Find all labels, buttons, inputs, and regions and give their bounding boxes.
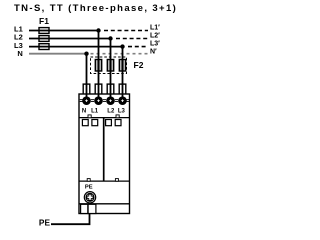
- PE screw: [84, 192, 95, 203]
- wire L2 solid: [29, 38, 111, 40]
- PE tab left: [81, 204, 88, 213]
- wire N solid gray: [29, 53, 87, 55]
- screw L2: [106, 96, 115, 105]
- junction N: [84, 52, 88, 56]
- terminal tab L1: [95, 84, 102, 94]
- notch right module bottom: [115, 179, 118, 182]
- wire L3 solid: [29, 46, 123, 48]
- fuse F2 pole L1: [95, 60, 101, 72]
- wire L3' dashed: [128, 46, 148, 48]
- svg-text:L2: L2: [107, 109, 115, 115]
- svg-text:L2′: L2′: [150, 33, 160, 40]
- SPD device body: [79, 94, 130, 214]
- screw N: [82, 96, 91, 105]
- wire N' dashed gray: [91, 53, 149, 55]
- fuse F1 pole L1: [39, 28, 49, 34]
- window L1: [92, 120, 98, 126]
- window L2: [106, 120, 112, 126]
- svg-text:L1′: L1′: [150, 25, 160, 32]
- lower divider line: [79, 203, 130, 205]
- fuse F1 pole L2: [39, 36, 49, 42]
- junction L3: [120, 44, 124, 48]
- screw L3: [118, 96, 127, 105]
- drop wire L3: [122, 47, 124, 97]
- window L3: [115, 120, 121, 126]
- module section bottom line: [79, 180, 130, 182]
- drop wire N: [86, 54, 88, 97]
- svg-text:L3′: L3′: [150, 41, 160, 48]
- terminal tab N: [83, 84, 90, 94]
- terminal tab L3: [119, 84, 126, 94]
- fuse F2 pole L2: [107, 60, 113, 72]
- window N: [82, 120, 88, 126]
- notch ticks on divider: [88, 115, 119, 118]
- junction L2: [108, 36, 112, 40]
- PE tab right: [88, 204, 96, 213]
- wire L2' dashed: [116, 38, 148, 40]
- svg-text:TN-S, TT (Three-phase, 3+1): TN-S, TT (Three-phase, 3+1): [14, 3, 177, 14]
- svg-text:L3: L3: [118, 109, 126, 115]
- svg-text:N: N: [17, 49, 22, 58]
- clamp bars: [80, 99, 130, 102]
- terminal tab L2: [107, 84, 114, 94]
- drop wire L1: [98, 31, 100, 98]
- fuse F2 pole L3: [119, 60, 125, 72]
- svg-text:N′: N′: [150, 49, 157, 56]
- svg-text:PE: PE: [39, 217, 51, 227]
- wire L1 solid: [29, 30, 99, 32]
- svg-text:N: N: [82, 109, 86, 115]
- notch left module bottom: [87, 179, 90, 182]
- svg-text:F2: F2: [134, 60, 144, 70]
- screw L1: [94, 96, 103, 105]
- wire L1' dashed: [104, 30, 148, 32]
- module section top line: [79, 117, 130, 119]
- junction L1: [96, 28, 100, 32]
- fuse F1 pole L3: [39, 44, 49, 50]
- svg-text:PE: PE: [85, 185, 93, 191]
- PE wire: [51, 214, 90, 225]
- drop wire L2: [110, 39, 112, 98]
- svg-text:F1: F1: [39, 16, 49, 26]
- svg-text:L1: L1: [91, 109, 99, 115]
- module divider: [103, 118, 105, 182]
- F2 dashed box: [91, 57, 127, 74]
